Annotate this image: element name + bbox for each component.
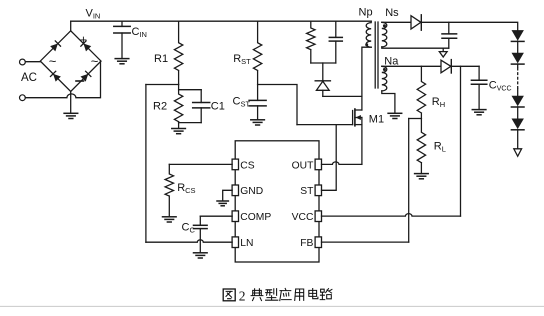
- wire M1 gate lead: [297, 124, 353, 126]
- wire ST pin up to gate rail: [322, 125, 337, 191]
- transformer primary winding Np: [366, 21, 371, 47]
- resistor RH: [417, 66, 425, 118]
- transformer core: [375, 22, 378, 88]
- wire AC bottom terminal to bridge right vertex (hops over ground stem): [25, 61, 100, 98]
- svg-text:VCC: VCC: [292, 212, 314, 223]
- wire VCC net vertical: [460, 66, 462, 216]
- output capacitor: [442, 22, 457, 48]
- wire VCC pin to VCC net (hops over FB vertical): [322, 214, 461, 217]
- node AC terminal top: [20, 59, 26, 65]
- wire R2/C1 bottom tie: [179, 122, 202, 124]
- ground below CIN: [115, 59, 129, 64]
- wire CS pin to RCS: [169, 163, 232, 165]
- svg-text:OUT: OUT: [292, 160, 314, 171]
- svg-text:~: ~: [91, 53, 99, 68]
- pin ST (right row 2): [315, 185, 321, 196]
- bridge diode bottom-left (B to L): [50, 71, 60, 81]
- LED D5: [511, 96, 524, 107]
- wire Na bottom to ground: [382, 91, 395, 113]
- svg-text:GND: GND: [240, 186, 263, 197]
- wire RST/CST junction right then down to gate rail: [258, 85, 297, 125]
- resistor RST: [253, 21, 261, 84]
- wire Ns bottom to output cap return: [382, 47, 449, 48]
- wire M1 source vertical to OUT: [361, 118, 363, 165]
- ground at GND pin: [217, 201, 228, 206]
- svg-text:FB: FB: [300, 238, 313, 249]
- svg-text:~: ~: [49, 53, 57, 68]
- svg-text:Ns: Ns: [385, 7, 399, 19]
- resistor RCS: [165, 164, 173, 216]
- wire GND pin to ground: [223, 190, 232, 201]
- svg-text:+: +: [80, 33, 87, 47]
- wire RH/RL junction to FB vertical: [409, 118, 422, 120]
- LED string return arrow: [514, 149, 522, 157]
- wire VIN rail: [71, 20, 372, 22]
- wire output diode to LED string: [421, 22, 517, 30]
- LED D3 (string top): [511, 30, 524, 41]
- snubber resistor: [307, 21, 315, 63]
- svg-text:RST: RST: [233, 53, 251, 66]
- svg-text:LN: LN: [240, 238, 253, 249]
- svg-text:C1: C1: [211, 101, 225, 113]
- resistor R1: [174, 21, 182, 84]
- svg-text:ST: ST: [300, 186, 314, 197]
- bridge rectifier BR1 diamond: [40, 31, 101, 92]
- wire LN pin to left vertical (hops over CC stem): [146, 240, 232, 242]
- wire aux diode cathode node: [451, 65, 479, 67]
- svg-text:2: 2: [239, 289, 246, 304]
- wire FB net vertical: [408, 119, 410, 243]
- svg-text:Np: Np: [359, 7, 373, 19]
- transistor M1 drain stub: [355, 109, 362, 111]
- wire bridge plus output to VIN rail: [70, 21, 72, 31]
- svg-text:M1: M1: [369, 114, 384, 126]
- wire LED string segment above D5: [517, 89, 519, 96]
- transistor M1 gate bar: [352, 111, 354, 125]
- LED D6 (string bottom): [511, 119, 524, 130]
- wire LED string segment: [517, 107, 519, 119]
- node Na polarity dot: [383, 68, 386, 71]
- bridge diode top-left (L to +): [50, 41, 60, 51]
- capacitor CST: [249, 85, 266, 120]
- node R2/C1 top tie: [179, 85, 202, 90]
- capacitor C1: [193, 90, 210, 123]
- wire FB pin to divider tap: [322, 241, 409, 243]
- pin LN (left row 4): [232, 237, 238, 248]
- ground below RCS: [163, 217, 177, 222]
- svg-text:CIN: CIN: [132, 26, 147, 39]
- pin VCC (right row 3): [315, 211, 321, 222]
- capacitor CC: [194, 216, 208, 253]
- transformer auxiliary winding Na: [382, 66, 387, 91]
- wire R2 bottom to ground: [178, 123, 180, 129]
- wire LED string segment: [517, 41, 519, 53]
- LED D4: [511, 53, 524, 64]
- ground below bridge: [64, 113, 78, 118]
- svg-text:COMP: COMP: [240, 212, 271, 223]
- snubber capacitor: [329, 21, 342, 63]
- caption figure title: [223, 288, 332, 303]
- resistor R2: [174, 90, 182, 123]
- pin CS (left row 1): [232, 159, 238, 170]
- ground below CVCC: [472, 110, 486, 115]
- wire R1/R2 junction to LN branch: [146, 84, 179, 86]
- svg-text:CS: CS: [240, 160, 254, 171]
- node Np polarity dot: [365, 43, 368, 46]
- wire OUT pin to M1 source (hops over ST vertical): [322, 162, 362, 165]
- svg-text:CST: CST: [233, 96, 251, 109]
- wire LED string to return arrow: [517, 130, 519, 149]
- resistor RL: [417, 119, 425, 174]
- ground below CC: [194, 253, 208, 258]
- svg-text:CVCC: CVCC: [489, 80, 512, 93]
- node AC terminal bottom: [20, 95, 26, 101]
- wire Na top to aux diode: [382, 65, 441, 67]
- pin OUT (right row 1): [315, 159, 321, 170]
- capacitor CIN: [114, 21, 130, 58]
- transformer secondary winding Ns: [382, 22, 387, 47]
- svg-text:CC: CC: [182, 222, 196, 235]
- pin COMP (left row 3): [232, 211, 238, 222]
- wire snubber RC bottom tie: [311, 62, 336, 64]
- svg-text:VIN: VIN: [86, 8, 101, 21]
- pin FB (right row 4): [315, 237, 321, 248]
- svg-text:Na: Na: [384, 55, 399, 67]
- node Ns polarity dot: [383, 24, 386, 27]
- decorative: none: [0, 305, 544, 307]
- wire bridge minus output to ground: [70, 92, 72, 114]
- wire node LN: left vertical from R1/R2 junction down to LN pin: [145, 85, 147, 243]
- svg-text:AC: AC: [21, 72, 37, 84]
- transistor M1 source stub: [355, 124, 362, 126]
- wire snubber tie to clamp diode: [322, 63, 324, 81]
- svg-text:RL: RL: [434, 140, 446, 153]
- wire Np bottom to M1 drain: [362, 47, 371, 110]
- ground below R2: [172, 129, 186, 134]
- bridge diode bottom-right (B to R): [80, 71, 90, 81]
- wire AC top terminal to bridge left vertex: [25, 61, 40, 63]
- bridge diode top-right (R to +): [81, 41, 91, 51]
- ground below CST: [251, 120, 265, 125]
- secondary return arrow: [439, 48, 447, 57]
- svg-text:R1: R1: [154, 53, 168, 65]
- ground below Na: [388, 113, 402, 118]
- ground below RL: [415, 174, 429, 179]
- pin GND (left row 2): [232, 185, 238, 196]
- wire clamp diode anode to M1 drain: [323, 95, 362, 97]
- svg-text:R2: R2: [153, 101, 167, 113]
- label bridge minus: [76, 80, 84, 82]
- capacitor CVCC: [471, 66, 486, 109]
- aux diode: [441, 60, 451, 73]
- transistor M1 body stub with arrow: [355, 115, 362, 120]
- clamp diode: [315, 81, 330, 97]
- svg-text:RH: RH: [432, 96, 445, 109]
- wire Ns top to output diode: [382, 21, 411, 23]
- transistor M1 channel bar: [354, 109, 356, 126]
- op-amp U1 controller IC body: [235, 141, 319, 262]
- svg-text:RCS: RCS: [177, 182, 195, 195]
- wire COMP pin to CC: [200, 215, 232, 217]
- output diode: [411, 15, 421, 30]
- wire LED string dashed continuation: [517, 64, 519, 67]
